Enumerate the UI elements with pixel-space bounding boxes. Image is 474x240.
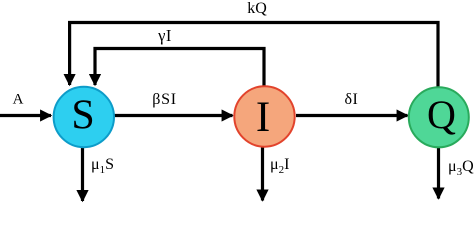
wire A input arrow into S	[0, 114, 51, 117]
svg-text:kQ: kQ	[247, 0, 267, 17]
wire kQ feedback: Q top, up, left across top, down into S	[70, 23, 438, 89]
wire mu1 S removal arrow down from S	[81, 147, 84, 201]
wire mu3 Q removal arrow down from Q	[437, 147, 440, 199]
svg-text:βSI: βSI	[152, 91, 176, 108]
svg-text:μ2I: μ2I	[270, 156, 289, 176]
svg-text:μ3Q: μ3Q	[448, 158, 474, 178]
node Q compartment circle	[409, 87, 469, 147]
svg-text:S: S	[71, 93, 94, 139]
wire mu2 I removal arrow down from I	[261, 147, 264, 201]
wire gammaI feedback: I top, up, left, down into S	[95, 49, 264, 88]
node I compartment circle	[234, 86, 294, 146]
wire S to I arrow (beta SI)	[114, 114, 233, 117]
svg-text:δI: δI	[344, 91, 358, 108]
svg-text:I: I	[256, 94, 270, 141]
svg-text:μ1S: μ1S	[91, 156, 114, 176]
svg-text:Q: Q	[427, 92, 456, 137]
svg-text:γI: γI	[157, 26, 172, 45]
svg-text:A: A	[13, 92, 24, 108]
wire I to Q arrow (delta I)	[296, 114, 408, 117]
node S compartment circle	[54, 87, 114, 147]
